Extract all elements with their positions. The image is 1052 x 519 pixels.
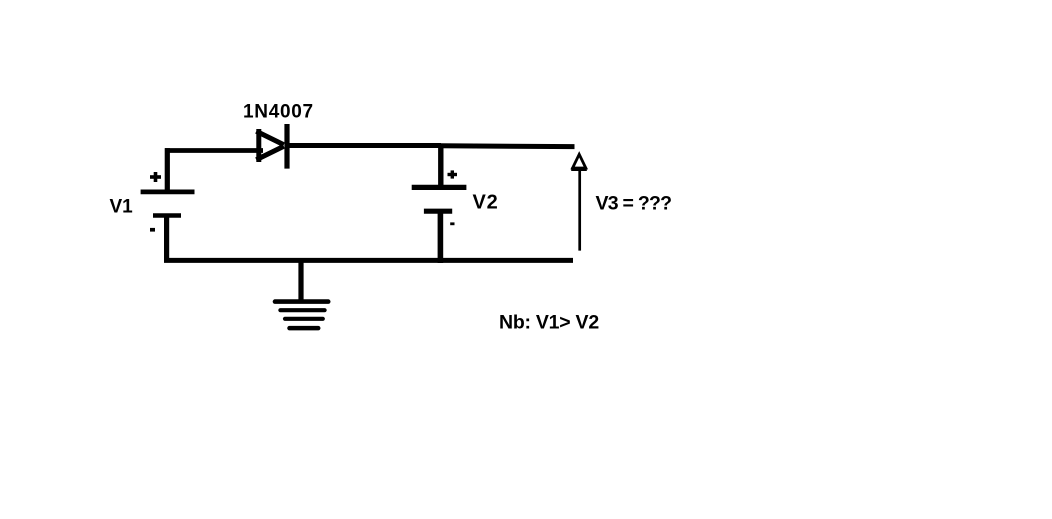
diode D1 cathode bar [284, 124, 289, 169]
V2 plus sign [448, 173, 458, 176]
wire V1 negative plate down to bottom rail [164, 216, 169, 261]
battery V2 negative plate [424, 209, 452, 214]
ground bar 2 [280, 308, 324, 312]
diode D1 triangle bottom edge [256, 146, 284, 160]
svg-text:V2: V2 [473, 192, 499, 214]
wire V2 node vertical (top wire to V2 + plate) [438, 144, 443, 187]
svg-text:V3 = ???: V3 = ??? [596, 192, 672, 214]
V1 minus sign [150, 228, 155, 232]
svg-text:Nb: V1> V2: Nb: V1> V2 [499, 311, 599, 333]
diode D1 triangle left edge [256, 129, 261, 162]
wire top-middle horizontal (cathode to V2 node) [285, 143, 442, 148]
svg-text:V1: V1 [110, 197, 134, 218]
wire top-right horizontal (V2 node to output) [441, 143, 575, 149]
wire top-left vertical (down to V1 + plate) [165, 148, 170, 191]
ground bar 4 [290, 326, 319, 331]
V3 arrow shaft [578, 169, 581, 251]
battery V1 negative plate [153, 213, 181, 218]
svg-text:1N4007: 1N4007 [243, 101, 314, 122]
bottom rail wire [164, 258, 573, 263]
ground bar 3 [285, 317, 323, 321]
V3 arrowhead base bar [571, 167, 587, 171]
ground stem wire [298, 258, 303, 302]
ground bar 1 [275, 299, 328, 304]
V2 minus sign [450, 222, 454, 225]
V1 plus sign [150, 175, 161, 179]
wire V2 negative plate down to bottom rail [438, 211, 444, 263]
diode D1 triangle top edge [256, 131, 284, 145]
battery V2 positive plate [412, 185, 467, 190]
V3 arrowhead open triangle [573, 154, 586, 168]
battery V1 positive plate [141, 189, 195, 194]
wire top-left horizontal (V1 to diode anode) [165, 148, 263, 153]
